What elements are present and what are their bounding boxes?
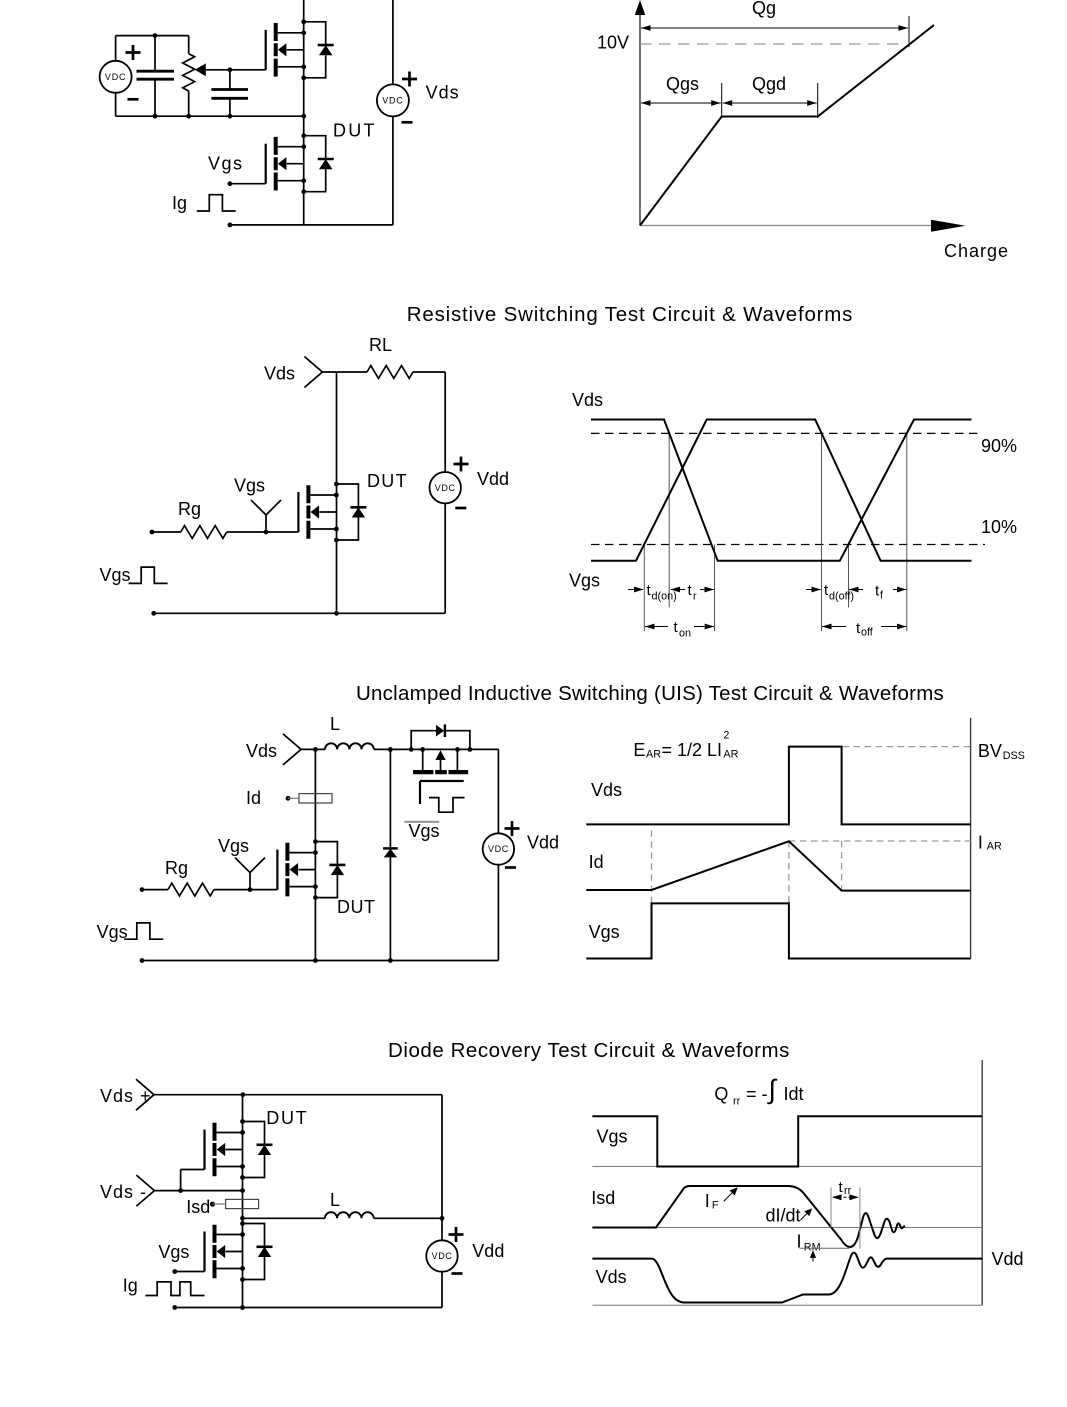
node: gate drive — [228, 67, 233, 72]
Vds- probe — [136, 1175, 154, 1206]
svg-text:= 1/2 LI: = 1/2 LI — [662, 740, 723, 760]
svg-text:off: off — [861, 627, 874, 639]
svg-text:Vdd: Vdd — [992, 1249, 1024, 1269]
Id waveform — [586, 841, 970, 890]
Vgs waveform — [586, 903, 970, 958]
potentiometer wiper arrow — [195, 63, 206, 76]
node: gate tie junction — [178, 1188, 183, 1193]
transistor Q5 (DUT diode) — [205, 1119, 273, 1180]
resistor Rg — [140, 887, 145, 892]
svg-text:DUT: DUT — [333, 121, 377, 141]
IRM up arrow — [812, 1254, 814, 1262]
toff arrows — [822, 626, 846, 628]
x axis — [640, 225, 934, 227]
Vds waveform — [586, 747, 970, 825]
Vgs waveform — [591, 420, 972, 561]
svg-text:RL: RL — [369, 335, 392, 355]
svg-text:Idt: Idt — [784, 1084, 804, 1104]
svg-text:Charge: Charge — [944, 241, 1009, 261]
node: DUT drain branch — [313, 747, 318, 752]
plus label of VDC5 — [449, 1227, 464, 1242]
ton arrows — [645, 626, 668, 628]
dI/dt pointer arrow — [801, 1211, 811, 1221]
wire: bottom return rail — [154, 612, 446, 614]
svg-text:RM: RM — [804, 1242, 821, 1254]
clamp diode D1 loop — [411, 731, 470, 750]
wire: RL to supply — [413, 371, 445, 373]
svg-text:10%: 10% — [981, 517, 1017, 537]
tr left arrow — [671, 589, 685, 591]
Qg measure arrow — [641, 27, 908, 29]
Qgs measure arrow — [641, 102, 721, 104]
zener clamp diode D2 — [389, 749, 391, 960]
wire: inductor branch — [243, 1217, 325, 1219]
node: Q2 gate terminal — [228, 181, 233, 186]
wire: bottom return rail — [230, 224, 393, 226]
Vgs waveform — [592, 1116, 982, 1166]
svg-text:Isd: Isd — [591, 1188, 615, 1208]
svg-text:Ig: Ig — [123, 1276, 138, 1296]
tf right arrow — [893, 589, 907, 591]
td(off) arrow — [806, 589, 821, 591]
y axis — [639, 8, 641, 226]
Isd zero axis — [592, 1227, 982, 1229]
right border line — [970, 718, 972, 959]
Vds waveform — [592, 1253, 982, 1303]
transistor Q4 (DUT) — [277, 839, 345, 900]
node: Q6 gate terminal — [172, 1269, 177, 1274]
BVDSS dashed level — [843, 746, 971, 748]
measure ticks — [722, 83, 818, 118]
voltage source VDC1 — [100, 61, 132, 93]
plus label of VDC2 — [402, 72, 417, 87]
svg-text:Unclamped Inductive Switching: Unclamped Inductive Switching (UIS) Test… — [356, 682, 944, 705]
svg-text:Vgs: Vgs — [158, 1242, 189, 1262]
svg-text:Vdd: Vdd — [477, 469, 509, 489]
clamp FET gate — [420, 781, 464, 804]
svg-text:2: 2 — [723, 730, 729, 742]
plus label of VDC3 — [454, 457, 469, 472]
voltage source VDC5 (Vdd) — [441, 1095, 443, 1308]
wire: top rail of bias loop — [116, 35, 189, 37]
node: bus at rail — [240, 1305, 245, 1310]
svg-text:AR: AR — [987, 841, 1002, 853]
svg-text:L: L — [330, 1190, 340, 1210]
wire: wiper to gate node — [204, 69, 266, 71]
transistor Q3 (DUT) — [298, 482, 366, 543]
node: DUT source to rail — [334, 611, 339, 616]
Vds probe — [304, 357, 322, 388]
10V dashed level — [640, 43, 899, 45]
trr measure verticals — [831, 1188, 860, 1249]
svg-text:Vgs: Vgs — [218, 836, 249, 856]
inductor L — [325, 743, 374, 749]
svg-text:Vgs: Vgs — [409, 821, 440, 841]
Vgs probe — [235, 858, 265, 892]
svg-text:E: E — [633, 740, 645, 760]
svg-text:F: F — [712, 1200, 719, 1212]
node junctions on bottom rail — [153, 114, 158, 119]
svg-text:dI/dt: dI/dt — [766, 1206, 801, 1226]
capacitor C2 — [229, 70, 231, 116]
IF pointer arrow — [724, 1190, 735, 1202]
clamp gate pulse (inverted) — [429, 798, 465, 813]
plus label of VDC1 — [126, 45, 141, 60]
svg-text:Isd: Isd — [186, 1197, 210, 1217]
node: rail left end — [151, 611, 156, 616]
wire: main vertical DUT bus — [336, 372, 338, 613]
voltage source VDC3 (Vdd) — [444, 372, 446, 613]
svg-text:I: I — [978, 832, 983, 852]
transistor Q1 (driver FET) — [266, 19, 334, 80]
svg-text:Vds: Vds — [596, 1267, 627, 1287]
minus label of VDC4 — [505, 867, 516, 869]
svg-text:AR: AR — [723, 749, 738, 761]
wire: Vds- to bus — [154, 1190, 242, 1192]
node: inductor branch at bus — [240, 1216, 245, 1221]
svg-text:I: I — [705, 1191, 710, 1211]
node: DUT drain — [240, 1092, 245, 1097]
Vgs zero axis — [592, 1166, 982, 1168]
svg-text:DUT: DUT — [367, 471, 408, 491]
td(on) arrow — [628, 589, 643, 591]
svg-text:DSS: DSS — [1003, 750, 1025, 762]
wire: bottom return rail — [175, 1307, 442, 1309]
minus label of VDC3 — [455, 507, 466, 509]
wire: inductor to supply — [374, 1217, 442, 1219]
svg-text:Qgd: Qgd — [752, 74, 786, 94]
svg-text:Vgs: Vgs — [100, 565, 131, 585]
svg-text:Vds: Vds — [246, 741, 277, 761]
svg-text:Vgs: Vgs — [234, 476, 265, 496]
wire: bottom rail of bias loop — [116, 115, 304, 117]
svg-text:Id: Id — [589, 852, 604, 872]
resistor RL — [367, 366, 413, 379]
Ig pulse symbol — [197, 195, 236, 211]
svg-text:Vds: Vds — [591, 780, 622, 800]
wire: inductor to supply rail — [374, 749, 499, 833]
current sense box Id — [299, 794, 332, 803]
svg-text:Vgs: Vgs — [589, 922, 620, 942]
inductor L — [325, 1212, 374, 1218]
svg-text:BV: BV — [978, 741, 1002, 761]
svg-text:10V: 10V — [597, 33, 629, 53]
resistor Rg — [150, 530, 155, 535]
Vds waveform — [591, 420, 972, 561]
node: Vds- at bus — [240, 1188, 245, 1193]
wire: Q6 gate lead — [175, 1271, 205, 1273]
wire: DUT vertical bus — [314, 749, 316, 960]
Vds probe — [283, 734, 301, 765]
Ig double pulse symbol — [145, 1282, 204, 1296]
plus label of VDC4 — [505, 821, 520, 836]
svg-text:Vds: Vds — [426, 82, 460, 102]
wire: bottom return rail — [142, 960, 498, 962]
Vgs pulse symbol — [129, 567, 168, 583]
svg-text:Qg: Qg — [752, 0, 776, 18]
svg-text:Vgs: Vgs — [569, 571, 600, 591]
trr arrows — [833, 1196, 857, 1198]
svg-text:Vds: Vds — [264, 364, 295, 384]
clamp transistor Q4b (sideways FET) — [423, 749, 458, 770]
svg-text:Id: Id — [246, 788, 261, 808]
transistor Q6 (driver) — [205, 1221, 273, 1282]
voltage source VDC2 (Vds supply) — [392, 0, 394, 225]
svg-text:Ig: Ig — [172, 193, 187, 213]
svg-text:d(off): d(off) — [829, 591, 854, 603]
wire: Rg to gate — [227, 531, 299, 533]
transistor Q2 (DUT) — [266, 133, 334, 194]
label Vgs-bar — [404, 821, 439, 823]
svg-text:on: on — [679, 628, 691, 640]
wire: C1 stems — [154, 36, 156, 117]
minus label of VDC1 — [128, 98, 139, 100]
dashed measure verticals — [652, 830, 842, 903]
Qg tick — [908, 16, 910, 47]
capacitor C1 — [137, 71, 175, 79]
node: inductor at supply rail — [440, 1216, 445, 1221]
wire: Q2 gate lead — [230, 183, 266, 185]
wire: VDC1 stems — [115, 36, 117, 117]
svg-text:Vds: Vds — [572, 390, 603, 410]
svg-text:Rg: Rg — [165, 858, 188, 878]
svg-text:d(on): d(on) — [652, 591, 677, 603]
svg-text:L: L — [330, 714, 340, 734]
svg-text:DUT: DUT — [337, 897, 376, 917]
minus label of VDC2 — [402, 121, 413, 123]
svg-text:Diode Recovery Test Circuit &: Diode Recovery Test Circuit & Waveforms — [388, 1039, 790, 1062]
svg-text:Vdd: Vdd — [472, 1241, 504, 1261]
svg-text:r: r — [693, 591, 697, 603]
svg-text:∫: ∫ — [767, 1075, 778, 1105]
wire: top node to inductor — [301, 748, 325, 750]
node: bottom rail left end — [228, 223, 233, 228]
svg-text:Vdd: Vdd — [527, 832, 559, 852]
wire: drain node to RL — [322, 371, 367, 373]
svg-text:90%: 90% — [981, 436, 1017, 456]
measure verticals — [644, 433, 907, 631]
voltage source VDC4 (Vdd) — [497, 865, 499, 961]
Vgs probe — [251, 500, 281, 534]
right border line — [981, 1060, 983, 1305]
current sense box Isd — [226, 1199, 259, 1208]
svg-text:Q: Q — [714, 1084, 728, 1104]
Vds zero axis — [592, 1304, 982, 1306]
svg-text:rr: rr — [733, 1096, 741, 1108]
IAR dashed level — [789, 840, 971, 842]
svg-text:DUT: DUT — [266, 1108, 308, 1128]
svg-text:Vgs: Vgs — [597, 1127, 628, 1147]
Vds+ probe — [136, 1079, 154, 1110]
node: C1 top — [153, 33, 158, 38]
potentiometer R1 — [188, 36, 190, 117]
wire: top rail — [154, 1094, 442, 1096]
svg-text:Rg: Rg — [178, 499, 201, 519]
svg-text:AR: AR — [646, 749, 661, 761]
wire: main vertical bus — [242, 1095, 244, 1308]
Isd waveform — [592, 1186, 904, 1247]
tr right arrow — [700, 589, 714, 591]
gate charge curve — [640, 25, 934, 226]
svg-text:Resistive Switching Test Circu: Resistive Switching Test Circuit & Wavef… — [407, 303, 853, 326]
node junctions on top wire — [388, 747, 393, 752]
Vgs pulse symbol — [124, 923, 163, 939]
90% dashed level — [591, 432, 977, 434]
svg-text:Qgs: Qgs — [666, 74, 699, 94]
svg-text:= -: = - — [746, 1084, 768, 1104]
node junctions on bottom rail — [140, 958, 145, 963]
svg-text:Vds -: Vds - — [100, 1182, 147, 1202]
minus label of VDC5 — [452, 1273, 463, 1275]
svg-text:Vgs: Vgs — [97, 922, 128, 942]
svg-text:Vgs: Vgs — [208, 154, 244, 174]
IRM underline — [800, 1247, 850, 1249]
wire: main vertical drain/source bus — [303, 0, 305, 225]
10% dashed level — [591, 544, 985, 546]
wire: Q5 gate tie to source — [181, 1170, 205, 1191]
Qgd measure arrow — [723, 102, 817, 104]
tf left arrow — [849, 589, 863, 591]
node: rail left end — [172, 1305, 177, 1310]
